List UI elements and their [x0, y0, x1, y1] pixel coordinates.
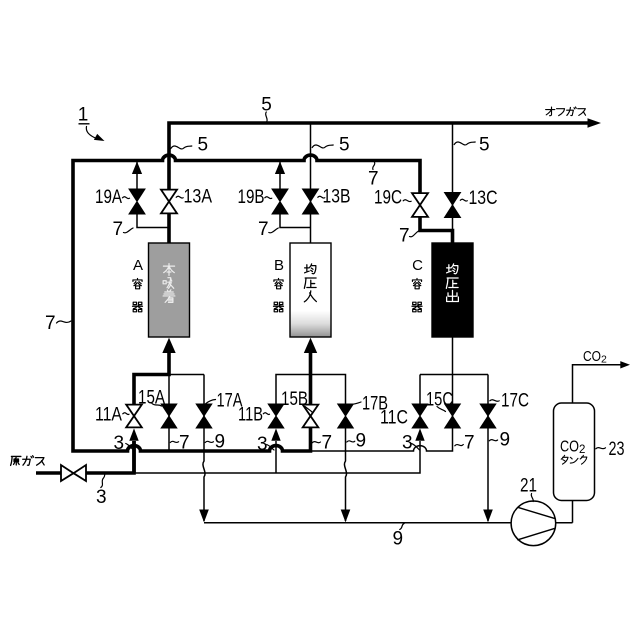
- svg-text:1: 1: [78, 105, 89, 126]
- arrowhead into vessel A: [162, 338, 175, 353]
- svg-text:5: 5: [479, 135, 490, 156]
- leader label13C: [460, 199, 467, 201]
- leader label19A: [123, 197, 130, 199]
- leader label3 B: [267, 445, 274, 451]
- leader label9 17A: [205, 441, 213, 442]
- wire 11B feed from line 3: [275, 441, 277, 473]
- valve 19C (open): [412, 193, 428, 217]
- valve 15C (closed): [445, 404, 461, 428]
- vessel C (equalization-out): [432, 243, 473, 337]
- leader label11A: [123, 413, 129, 415]
- svg-text:13C: 13C: [469, 188, 498, 209]
- svg-text:5: 5: [261, 95, 272, 116]
- wire 13C column (line 5 branch C): [452, 123, 454, 231]
- svg-text:3: 3: [257, 434, 268, 455]
- leader label3 C: [412, 444, 420, 450]
- wire offgas line 5 bold with vessel A column: [169, 123, 589, 243]
- label A 容器: [132, 257, 143, 312]
- leader label19B: [265, 197, 272, 199]
- leader label13B: [318, 196, 325, 198]
- leader label15B: [305, 407, 313, 413]
- label raw gas 原ガス: [11, 456, 45, 466]
- wire 17B down with jog over line 3: [344, 428, 346, 521]
- wire 19B arrow line to line 7: [279, 162, 281, 190]
- valve 11A (open): [126, 405, 142, 428]
- wire 11C branch: [419, 375, 421, 405]
- valve 19A (closed): [129, 189, 145, 214]
- valve 19B (closed): [272, 189, 288, 214]
- leader label5 top: [266, 112, 268, 122]
- wire 15C branch: [452, 375, 454, 429]
- leader label7 15B: [312, 442, 320, 443]
- arrowhead into vessel B: [304, 338, 317, 353]
- arrowhead 19B up: [275, 162, 285, 175]
- leader label11B: [263, 413, 269, 415]
- wire 11A feed lower segment: [132, 441, 136, 473]
- wire 17A branch with jog over line 3: [203, 375, 205, 522]
- svg-text:13B: 13B: [323, 187, 351, 208]
- leader label9 17C: [489, 440, 497, 441]
- svg-text:11C: 11C: [380, 408, 408, 429]
- valve 17C (closed): [480, 404, 496, 428]
- wire compressor outlet to tank: [556, 501, 573, 523]
- wire 19B bottom connector: [280, 214, 311, 228]
- vessel A (adsorbing): [149, 243, 190, 337]
- svg-text:23: 23: [609, 439, 625, 460]
- svg-text:7: 7: [113, 219, 124, 240]
- arrowhead figure1: [94, 134, 105, 141]
- svg-text:3: 3: [96, 487, 107, 508]
- leader label9 17B: [347, 441, 355, 442]
- svg-text:13A: 13A: [184, 187, 213, 208]
- wire line 7 bold: vessel C top, 19C, top header, left drop, bottom run to 15B: [73, 155, 453, 451]
- arrowhead 17C down: [483, 510, 493, 523]
- arrowhead 17B down: [341, 510, 351, 523]
- label B 容器: [273, 257, 284, 312]
- leader label21: [531, 494, 533, 502]
- wire tank top CO2 outlet: [573, 365, 622, 403]
- leader label15A: [151, 403, 162, 407]
- wire line 9 bottom header: [204, 522, 511, 524]
- arrowhead CO2 out: [620, 361, 630, 368]
- leader label5 C: [454, 142, 475, 145]
- wire vessel B bottom header + 11B,17B branches: [276, 375, 346, 405]
- compressor 21: [511, 501, 556, 546]
- tank 23 CO2: [554, 403, 595, 501]
- wire vessel C bottom header: [420, 374, 488, 376]
- valve 13A (open): [161, 190, 177, 214]
- valve 15B (open): [303, 405, 319, 428]
- svg-text:A: A: [133, 257, 143, 274]
- svg-text:15B: 15B: [281, 389, 308, 410]
- svg-text:15C: 15C: [426, 390, 453, 411]
- svg-text:7: 7: [399, 226, 410, 247]
- valve 17A (closed): [196, 404, 212, 428]
- arrowhead 17A down: [199, 510, 209, 523]
- leader label9 bottom: [400, 523, 405, 529]
- valve raw-gas inlet (open): [61, 465, 86, 481]
- leader label7 15C: [455, 445, 464, 446]
- leader label5 A: [171, 146, 192, 149]
- svg-text:9: 9: [500, 430, 511, 451]
- valve 13C (closed): [445, 193, 461, 218]
- leader label7 left: [57, 321, 72, 323]
- valve 11B (closed): [268, 404, 284, 428]
- svg-text:7: 7: [464, 433, 475, 454]
- leader label19C: [403, 200, 411, 202]
- arrowhead 11A up: [129, 428, 138, 440]
- svg-text:7: 7: [45, 313, 56, 334]
- svg-text:21: 21: [520, 476, 537, 497]
- wire vessel A bottom header right + 15A branch: [169, 375, 204, 452]
- svg-text:3: 3: [114, 433, 125, 454]
- wire vessel B inlet bold: [309, 353, 313, 375]
- wire 17C down line: [487, 428, 489, 521]
- wire line 7 thin segment with hump over 11C feed: [311, 428, 453, 451]
- svg-text:C: C: [412, 257, 423, 274]
- svg-text:11A: 11A: [95, 405, 122, 426]
- svg-text:9: 9: [393, 529, 404, 550]
- svg-text:CO2: CO2: [583, 349, 607, 366]
- svg-text:5: 5: [339, 135, 350, 156]
- arrowhead offgas: [588, 118, 602, 128]
- svg-text:7: 7: [258, 219, 269, 240]
- svg-text:15A: 15A: [138, 388, 165, 409]
- svg-text:17C: 17C: [501, 391, 529, 412]
- svg-text:19A: 19A: [95, 187, 122, 208]
- svg-text:7: 7: [179, 433, 190, 454]
- label offgas オフガス: [546, 107, 586, 116]
- leader label7 right-top: [373, 162, 375, 170]
- svg-text:5: 5: [198, 135, 209, 156]
- svg-text:7: 7: [322, 433, 333, 454]
- leader label7 below19C: [410, 231, 419, 237]
- svg-text:19B: 19B: [238, 187, 265, 208]
- leader label17B: [351, 402, 362, 405]
- wire line 3 bold: raw gas feed through 11A to vessel A: [36, 353, 169, 473]
- leader label7 15A: [170, 441, 178, 442]
- wire 19A bottom connector: [137, 214, 169, 228]
- vessel B (equalization-in): [290, 243, 331, 337]
- leader label3 A: [126, 444, 133, 450]
- wire 19A arrow line to line 7: [136, 162, 138, 190]
- svg-text:3: 3: [402, 433, 413, 454]
- leader label17C: [490, 400, 499, 402]
- leader label7 below19B: [269, 228, 279, 233]
- leader label13A: [176, 196, 183, 198]
- leader label23: [596, 448, 606, 449]
- arrowhead 11C up: [415, 428, 424, 440]
- svg-text:7: 7: [368, 169, 379, 190]
- arrowhead 19A up: [132, 162, 142, 175]
- valve 15A (closed): [161, 404, 177, 428]
- arrowhead 11B up: [271, 428, 280, 440]
- leader label5 B: [312, 145, 333, 148]
- leader figure1 arrow: [86, 127, 96, 139]
- svg-text:B: B: [274, 257, 284, 274]
- svg-text:11B: 11B: [238, 405, 263, 426]
- wire vessel C stem: [452, 337, 454, 375]
- leader label17A: [206, 400, 216, 404]
- wire 13B column (line 5 branch B): [310, 123, 312, 243]
- valve 13B (closed): [303, 189, 319, 214]
- label C 容器: [412, 257, 423, 312]
- leader label15C: [437, 407, 446, 412]
- svg-text:9: 9: [215, 432, 226, 453]
- svg-text:9: 9: [356, 431, 367, 452]
- svg-text:19C: 19C: [374, 188, 402, 209]
- leader label3 rawgas: [101, 474, 105, 487]
- wire line 3 thin segment to 11C: [134, 441, 420, 473]
- wire 17C branch: [487, 375, 489, 429]
- valve 11C (closed): [412, 404, 428, 428]
- leader label7 below19A: [124, 228, 134, 233]
- valve 17B (closed): [338, 404, 354, 428]
